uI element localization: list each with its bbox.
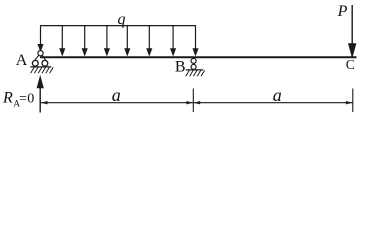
support A legs [34,55,39,61]
distributed load q top line [40,25,196,27]
load arrow 6 [147,26,151,55]
reaction RA arrow [38,78,43,113]
svg-text:q: q [118,11,126,28]
dimension middle tick [192,89,194,113]
support B roller circle top [191,58,196,63]
support A roller left [32,60,38,66]
svg-text:C: C [346,57,355,72]
beam A-C [40,56,357,58]
support B roller circle bottom [191,64,196,69]
load arrow 1 [38,26,42,51]
load P arrow [349,5,356,56]
support A ground line [30,66,51,68]
load arrow 4 [105,26,109,55]
dimension arrow right end [346,101,353,104]
dimension arrows at middle tick [186,101,193,104]
svg-text:0: 0 [27,92,34,107]
support B ground line [186,69,203,71]
dimension arrow left end [41,101,48,104]
load arrow 5 [125,26,129,55]
support B hatching [186,70,205,76]
load arrow 7 [171,26,175,55]
support A roller right [42,60,48,66]
support A hatching [31,67,54,73]
svg-text:B: B [175,59,186,76]
svg-text:a: a [112,85,121,105]
svg-text:A: A [16,52,28,69]
load arrow 2 [60,26,64,55]
load arrow 8 [193,26,197,55]
svg-text:a: a [273,85,282,105]
dimension line [40,102,353,104]
svg-text:=: = [19,92,27,107]
svg-text:P: P [337,3,348,20]
dimension right tick [352,89,354,113]
support A pin circle [38,51,43,56]
load arrow 3 [83,26,87,55]
svg-text:R: R [2,90,13,107]
